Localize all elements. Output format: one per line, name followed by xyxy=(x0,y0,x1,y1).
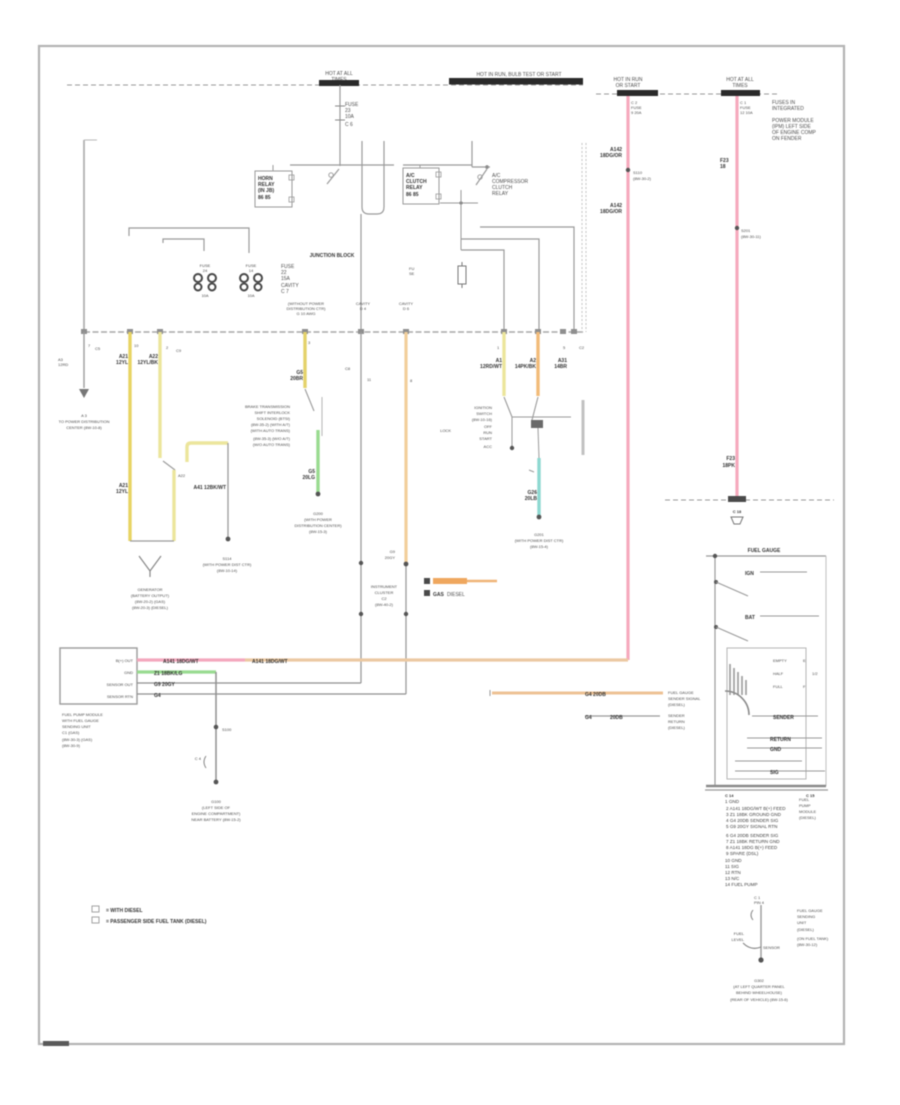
svg-text:SIG: SIG xyxy=(770,770,779,776)
svg-text:20BR: 20BR xyxy=(290,376,303,382)
junction U bottom joining yellows xyxy=(130,540,174,542)
bus HOT dashed line right xyxy=(596,93,778,95)
wire P2 pink vertical fuse feed xyxy=(735,96,738,499)
splice S110 on P1 xyxy=(626,168,652,181)
gauge coil bars xyxy=(730,664,746,695)
svg-text:UNIT: UNIT xyxy=(797,920,807,925)
wire P1 pin text xyxy=(631,100,642,115)
wire row R1 orange segment xyxy=(245,659,628,665)
svg-text:F23: F23 xyxy=(726,456,735,462)
svg-text:(8W-30-9): (8W-30-9) xyxy=(62,743,81,748)
fuel sender float arm xyxy=(732,931,780,950)
relay K1 feed rail xyxy=(290,164,394,166)
fuse cluster FC1 xyxy=(194,263,216,298)
header label H4 fuse xyxy=(721,77,760,96)
svg-text:= WITH DIESEL: = WITH DIESEL xyxy=(106,908,143,914)
wire W-A gray with arrow xyxy=(58,332,89,398)
cluster row D xyxy=(747,737,822,743)
wire P2 pin text xyxy=(740,100,753,115)
cluster row A xyxy=(745,571,807,577)
relay K2 feed rail xyxy=(403,141,472,167)
wire O1 destination text xyxy=(668,690,701,707)
svg-text:BEHIND WHEELHOUSE): BEHIND WHEELHOUSE) xyxy=(736,990,783,995)
wire W-H orange ignition xyxy=(515,332,538,396)
svg-text:SENSOR OUT: SENSOR OUT xyxy=(107,682,134,687)
in-box text TB4 xyxy=(399,301,413,311)
relay K2 output rail xyxy=(440,190,478,250)
fuel sender connector xyxy=(751,895,765,958)
wire P1 pink vertical ASD xyxy=(626,96,629,660)
svg-text:1 GND: 1 GND xyxy=(725,799,740,804)
svg-text:FUEL GAUGE: FUEL GAUGE xyxy=(668,690,694,695)
svg-text:HALF: HALF xyxy=(773,671,784,676)
svg-text:(BATTERY OUTPUT): (BATTERY OUTPUT) xyxy=(131,593,170,598)
relay K2 coil box xyxy=(403,165,441,204)
svg-text:14BR: 14BR xyxy=(554,364,567,370)
svg-text:(8W-30-3) (GAS): (8W-30-3) (GAS) xyxy=(62,737,93,742)
svg-text:A22: A22 xyxy=(178,473,186,478)
ground text under green xyxy=(294,511,342,534)
svg-text:A 3: A 3 xyxy=(81,413,88,418)
ignition switch contact SW1 xyxy=(163,461,175,470)
svg-text:G 10 AWG: G 10 AWG xyxy=(297,311,316,316)
switch contact SW-D xyxy=(305,389,322,436)
svg-text:18DG/OR: 18DG/OR xyxy=(600,209,622,215)
ground G302 text xyxy=(730,978,788,1002)
svg-text:MODULE: MODULE xyxy=(799,809,816,814)
svg-text:RETURN: RETURN xyxy=(668,719,685,724)
header label H2 HOT IN RUN xyxy=(449,72,583,85)
svg-text:D 6: D 6 xyxy=(403,306,410,311)
wire row R3 gray xyxy=(137,682,361,688)
svg-text:10A: 10A xyxy=(201,293,208,298)
module box PCM bottom-left xyxy=(60,648,137,704)
svg-text:G201: G201 xyxy=(534,532,545,537)
svg-text:G100: G100 xyxy=(211,799,222,804)
svg-text:20LB: 20LB xyxy=(525,496,538,502)
wire W-C pale yellow upper xyxy=(137,332,160,458)
svg-text:A141 18DG/WT: A141 18DG/WT xyxy=(163,659,199,665)
svg-text:10A: 10A xyxy=(247,293,254,298)
svg-text:2: 2 xyxy=(166,345,169,350)
svg-text:BRAKE TRANSMISSION: BRAKE TRANSMISSION xyxy=(245,404,290,409)
svg-text:12YL/BK: 12YL/BK xyxy=(137,360,158,366)
ignition switch contacts xyxy=(504,397,583,458)
svg-text:18: 18 xyxy=(720,164,726,170)
wire green ground drop xyxy=(195,672,232,784)
svg-text:C9: C9 xyxy=(176,348,182,353)
svg-text:(REAR OF VEHICLE) (8W-15-6): (REAR OF VEHICLE) (8W-15-6) xyxy=(730,997,788,1002)
svg-text:G4 20DB: G4 20DB xyxy=(585,692,606,698)
in-box bracket B1 xyxy=(129,228,249,253)
svg-text:9 SPARE (DSL): 9 SPARE (DSL) xyxy=(726,851,759,856)
svg-text:12RD: 12RD xyxy=(58,362,68,367)
svg-text:SENDER: SENDER xyxy=(773,715,794,721)
svg-text:7: 7 xyxy=(88,343,91,348)
svg-text:20GY: 20GY xyxy=(385,555,396,560)
junction block bottom pin boxes xyxy=(81,329,577,334)
connector text block middle xyxy=(371,584,398,607)
svg-text:5 G9 20GY SIGNAL RTN: 5 G9 20GY SIGNAL RTN xyxy=(726,824,778,829)
wire W-G pale yellow ignition feed xyxy=(480,332,504,396)
svg-text:GENERATOR: GENERATOR xyxy=(138,587,163,592)
svg-text:SENSOR RTN: SENSOR RTN xyxy=(107,694,133,699)
in-box text TB3 xyxy=(356,301,370,311)
svg-text:10 GND: 10 GND xyxy=(725,858,742,863)
svg-text:CLUSTER: CLUSTER xyxy=(375,590,394,595)
svg-text:G200: G200 xyxy=(313,511,324,516)
svg-text:1: 1 xyxy=(497,345,500,350)
svg-text:15A: 15A xyxy=(281,276,291,282)
cluster row E xyxy=(747,747,822,753)
svg-text:2 A141 18DG/WT B(+) FEED: 2 A141 18DG/WT B(+) FEED xyxy=(726,806,786,811)
svg-text:JUNCTION BLOCK: JUNCTION BLOCK xyxy=(310,253,355,259)
cluster row C xyxy=(752,715,818,721)
svg-text:(8W-35-3) (W/O A/T): (8W-35-3) (W/O A/T) xyxy=(253,436,290,441)
svg-text:(IN JB): (IN JB) xyxy=(258,188,274,194)
svg-text:OFF: OFF xyxy=(484,424,493,429)
cluster row B xyxy=(745,615,819,621)
svg-text:12 10A: 12 10A xyxy=(740,110,753,115)
svg-text:(DIESEL): (DIESEL) xyxy=(668,702,686,707)
svg-text:8 A141 18DG B(+) FEED: 8 A141 18DG B(+) FEED xyxy=(726,845,778,850)
svg-text:12RD/WT: 12RD/WT xyxy=(480,364,502,370)
svg-text:(8W-20-3) (DIESEL): (8W-20-3) (DIESEL) xyxy=(132,605,169,610)
svg-text:S114: S114 xyxy=(222,556,232,561)
svg-text:CENTER (8W-10-8): CENTER (8W-10-8) xyxy=(66,425,102,430)
svg-text:BAT: BAT xyxy=(745,615,755,621)
svg-text:Z1 18BK/LG: Z1 18BK/LG xyxy=(154,671,182,677)
ground G100 text xyxy=(191,799,241,822)
svg-text:(WITH AUTO TRANS): (WITH AUTO TRANS) xyxy=(251,428,291,433)
svg-text:FUEL GAUGE: FUEL GAUGE xyxy=(797,908,823,913)
svg-text:RUN: RUN xyxy=(483,430,492,435)
header label H1 HOT AT ALL TIMES xyxy=(319,71,359,86)
svg-text:G9 20GY: G9 20GY xyxy=(154,682,176,688)
svg-text:START: START xyxy=(479,436,492,441)
in-box text TB2 xyxy=(287,301,327,316)
wire P2 label lower xyxy=(722,456,735,469)
svg-text:20LG: 20LG xyxy=(302,475,315,481)
svg-text:86 85: 86 85 xyxy=(258,195,271,201)
svg-text:G9: G9 xyxy=(390,549,396,554)
svg-text:12YL: 12YL xyxy=(116,360,128,366)
table side note xyxy=(799,797,817,820)
svg-text:10A: 10A xyxy=(345,114,355,120)
svg-text:SENDER SIGNAL: SENDER SIGNAL xyxy=(668,696,701,701)
wire L2c nested xyxy=(461,250,504,332)
svg-text:C 14: C 14 xyxy=(725,793,734,798)
svg-text:(8W-30-2): (8W-30-2) xyxy=(633,176,652,181)
svg-text:C 6: C 6 xyxy=(345,122,353,128)
svg-text:G302: G302 xyxy=(754,978,765,983)
svg-text:DIESEL: DIESEL xyxy=(447,592,465,598)
instrument cluster box xyxy=(705,554,828,790)
in-box fuse symbol S2 xyxy=(458,262,466,288)
svg-text:B(+) OUT: B(+) OUT xyxy=(116,658,134,663)
svg-text:C8: C8 xyxy=(345,366,351,371)
svg-text:S110: S110 xyxy=(633,170,643,175)
svg-text:ON FENDER: ON FENDER xyxy=(772,136,802,142)
svg-text:SOLENOID (BTSI): SOLENOID (BTSI) xyxy=(257,416,291,421)
wire W-A destination text xyxy=(58,413,109,430)
wire W-B yellow vertical xyxy=(116,332,130,541)
svg-text:(WITH POWER: (WITH POWER xyxy=(304,517,332,522)
svg-text:8: 8 xyxy=(410,378,413,383)
svg-text:(LEFT SIDE OF: (LEFT SIDE OF xyxy=(202,805,231,810)
svg-text:SENSOR: SENSOR xyxy=(763,945,780,950)
connector C300 dashed line xyxy=(665,496,834,524)
wire P2 label upper xyxy=(720,158,729,170)
relay K1 contact bracket U xyxy=(362,141,384,214)
svg-text:14PK/BK: 14PK/BK xyxy=(515,364,537,370)
legend row 1 orange xyxy=(424,578,497,584)
svg-text:(8W-10-16): (8W-10-16) xyxy=(472,417,493,422)
bus HOT dashed line left xyxy=(67,84,583,86)
svg-text:FUEL: FUEL xyxy=(799,797,810,802)
cluster inner box xyxy=(727,648,806,779)
svg-text:24: 24 xyxy=(203,268,208,273)
svg-text:11: 11 xyxy=(367,377,372,382)
svg-text:EMPTY: EMPTY xyxy=(773,658,787,663)
component text right of P2 top xyxy=(772,100,817,142)
wire yellow elbow to accessory xyxy=(187,443,228,462)
svg-text:3: 3 xyxy=(308,340,311,345)
svg-text:SHIFT INTERLOCK: SHIFT INTERLOCK xyxy=(255,410,291,415)
svg-text:SENDER: SENDER xyxy=(668,713,685,718)
svg-text:TO POWER DISTRIBUTION: TO POWER DISTRIBUTION xyxy=(58,419,109,424)
svg-text:10: 10 xyxy=(134,343,139,348)
svg-text:C5: C5 xyxy=(95,346,101,351)
svg-text:(WITH POWER DIST CTR): (WITH POWER DIST CTR) xyxy=(515,538,564,543)
svg-text:NEAR BATTERY (8W-15-2): NEAR BATTERY (8W-15-2) xyxy=(191,817,241,822)
cluster switch A xyxy=(714,580,748,596)
svg-text:18DG/OR: 18DG/OR xyxy=(600,153,622,159)
ignition switch text block xyxy=(440,405,493,449)
gauge labels xyxy=(773,658,818,689)
svg-text:FULL: FULL xyxy=(773,684,784,689)
svg-text:86 85: 86 85 xyxy=(406,192,419,198)
cluster bottom pin marks xyxy=(725,793,815,798)
svg-text:12 RTN: 12 RTN xyxy=(725,870,741,875)
svg-text:E: E xyxy=(803,658,806,663)
svg-text:ACC: ACC xyxy=(484,444,493,449)
svg-text:18PK: 18PK xyxy=(722,463,735,469)
relay K1 coil box xyxy=(255,165,294,207)
svg-text:12YL: 12YL xyxy=(116,489,128,495)
wire P1 label lower xyxy=(600,203,622,215)
svg-text:FUEL PUMP MODULE: FUEL PUMP MODULE xyxy=(62,712,103,717)
svg-text:(DIESEL): (DIESEL) xyxy=(797,927,815,932)
svg-text:20DB: 20DB xyxy=(610,715,623,721)
svg-text:FUEL GAUGE: FUEL GAUGE xyxy=(748,548,781,554)
wire relay K1 output to box bottom xyxy=(360,214,362,332)
cluster switch B xyxy=(714,625,748,641)
svg-text:11 SIG: 11 SIG xyxy=(725,864,739,869)
svg-text:6 G4 20DB SENDER SIG: 6 G4 20DB SENDER SIG xyxy=(726,833,779,838)
splice S on P2 xyxy=(735,226,762,239)
svg-text:SE: SE xyxy=(409,271,415,276)
svg-text:C 7: C 7 xyxy=(281,289,289,295)
wire P1 label upper xyxy=(600,147,622,159)
svg-text:(ON FUEL TANK): (ON FUEL TANK) xyxy=(797,936,829,941)
svg-text:D 4: D 4 xyxy=(360,306,367,311)
wire O1 orange branch xyxy=(490,690,663,698)
fuse F1 drop wire from bus xyxy=(335,85,359,166)
svg-text:(8W-15-4): (8W-15-4) xyxy=(530,544,549,549)
svg-text:7 Z1 18BK RETURN GND: 7 Z1 18BK RETURN GND xyxy=(726,839,780,844)
svg-text:(W/O AUTO TRANS): (W/O AUTO TRANS) xyxy=(253,442,291,447)
svg-text:14 FUEL PUMP: 14 FUEL PUMP xyxy=(725,882,758,887)
svg-text:14: 14 xyxy=(249,268,254,273)
svg-text:A41 12BK/WT: A41 12BK/WT xyxy=(193,485,226,491)
svg-text:C2: C2 xyxy=(381,596,387,601)
svg-text:3 Z1 18BK GROUND GND: 3 Z1 18BK GROUND GND xyxy=(726,812,782,817)
gauge needle arc xyxy=(725,691,749,715)
wire W-E gray vertical to cluster xyxy=(359,332,363,683)
svg-text:IGNITION: IGNITION xyxy=(474,405,492,410)
svg-text:(WITH POWER DIST CTR): (WITH POWER DIST CTR) xyxy=(203,562,252,567)
svg-text:C 4: C 4 xyxy=(195,756,202,761)
wire row R4 gray xyxy=(137,693,406,699)
wire W-D mustard yellow xyxy=(290,332,305,388)
svg-text:(8W-35-2) (WITH A/T): (8W-35-2) (WITH A/T) xyxy=(251,422,291,427)
svg-text:IGN: IGN xyxy=(745,571,754,577)
svg-text:ENGINE COMPARTMENT): ENGINE COMPARTMENT) xyxy=(192,811,241,816)
wire row R1 pink segment xyxy=(137,659,245,665)
bottom pins of junction block xyxy=(88,340,585,383)
in-box text TB1 xyxy=(281,264,299,295)
svg-text:RETURN: RETURN xyxy=(770,737,791,743)
connector pin table xyxy=(725,799,786,856)
svg-text:INTEGRATED: INTEGRATED xyxy=(772,106,804,112)
header label H3 ASD relay xyxy=(613,77,658,96)
svg-text:9 20A: 9 20A xyxy=(631,110,642,115)
svg-text:LEVEL: LEVEL xyxy=(732,937,745,942)
svg-text:(DIESEL): (DIESEL) xyxy=(668,725,686,730)
in-box bracket B2 xyxy=(163,239,204,251)
svg-text:5: 5 xyxy=(563,345,566,350)
svg-text:A141 18DG/WT: A141 18DG/WT xyxy=(252,659,288,665)
page number xyxy=(43,1041,69,1046)
fuse cluster FC2 xyxy=(240,263,262,298)
relay K2 switch xyxy=(472,165,490,185)
svg-text:GND: GND xyxy=(124,670,133,675)
svg-text:(DIESEL): (DIESEL) xyxy=(799,815,817,820)
wire W-D green segment xyxy=(302,430,320,496)
svg-text:GND: GND xyxy=(770,747,782,753)
wire L2a nested xyxy=(480,227,574,332)
svg-text:(8W-15-3): (8W-15-3) xyxy=(309,529,328,534)
wire O2 gray branch xyxy=(585,715,660,721)
svg-text:LOCK: LOCK xyxy=(440,428,451,433)
wire row R2 green xyxy=(137,671,216,677)
wire W-F orange vertical xyxy=(385,332,409,694)
svg-text:(8W-20-2) (GAS): (8W-20-2) (GAS) xyxy=(135,599,166,604)
svg-text:OR START: OR START xyxy=(616,83,641,89)
wire W-CY cyan vertical xyxy=(525,458,542,519)
svg-text:G4: G4 xyxy=(585,715,592,721)
svg-text:C 18: C 18 xyxy=(733,509,742,514)
cluster row G xyxy=(735,770,825,776)
junction block box outline xyxy=(84,140,586,332)
svg-text:= PASSENGER SIDE FUEL TANK (DI: = PASSENGER SIDE FUEL TANK (DIESEL) xyxy=(106,919,207,925)
in-box small symbol S1 xyxy=(409,266,415,276)
fuel sender ground dot xyxy=(758,957,763,962)
svg-text:PUMP: PUMP xyxy=(799,803,811,808)
svg-text:(8W-30-11): (8W-30-11) xyxy=(741,234,762,239)
svg-text:SWITCH: SWITCH xyxy=(476,411,492,416)
svg-text:G4: G4 xyxy=(154,693,161,699)
svg-text:S201: S201 xyxy=(741,228,751,233)
legend bottom rows xyxy=(92,906,207,925)
svg-text:WITH FUEL GAUGE: WITH FUEL GAUGE xyxy=(62,718,99,723)
wire L2b nested xyxy=(461,239,539,332)
svg-text:DISTRIBUTION CENTER): DISTRIBUTION CENTER) xyxy=(294,523,342,528)
svg-text:(8W-40-2): (8W-40-2) xyxy=(375,602,394,607)
wire O2 destination text xyxy=(668,713,686,730)
module label text xyxy=(62,712,103,748)
svg-text:4 G4 20DB SENDER SIG: 4 G4 20DB SENDER SIG xyxy=(726,818,779,823)
relay K2 label text xyxy=(492,173,529,197)
generator label text xyxy=(131,587,170,610)
svg-text:C2: C2 xyxy=(579,345,585,350)
svg-text:C1 (GAS): C1 (GAS) xyxy=(62,730,80,735)
svg-text:(AT LEFT QUARTER PANEL: (AT LEFT QUARTER PANEL xyxy=(733,984,785,989)
svg-text:TIMES: TIMES xyxy=(732,83,748,89)
wire W-C pale yellow lower xyxy=(174,470,186,541)
A/T shift lock text block xyxy=(245,404,291,447)
svg-text:RELAY: RELAY xyxy=(492,191,509,197)
svg-text:1/2: 1/2 xyxy=(812,671,818,676)
svg-text:(8W-10-14): (8W-10-14) xyxy=(217,568,238,573)
svg-text:S100: S100 xyxy=(222,727,232,732)
svg-text:FUEL: FUEL xyxy=(734,931,745,936)
relay K1 switch xyxy=(327,169,339,184)
svg-text:SENDING UNIT: SENDING UNIT xyxy=(62,724,91,729)
svg-text:GAS: GAS xyxy=(433,592,445,598)
cluster row F xyxy=(735,760,802,762)
wire W-ACC destination text xyxy=(203,556,252,573)
instrument cluster title xyxy=(748,548,781,554)
svg-text:(8W-30-12): (8W-30-12) xyxy=(797,942,818,947)
svg-text:RELAY: RELAY xyxy=(406,185,423,191)
legend row 2 xyxy=(424,590,465,598)
svg-text:INSTRUMENT: INSTRUMENT xyxy=(371,584,398,589)
fuel sender text block xyxy=(797,908,829,947)
svg-text:SENDING: SENDING xyxy=(797,914,815,919)
connector pin table short rows xyxy=(725,858,758,887)
svg-text:HOT IN RUN, BULB TEST OR START: HOT IN RUN, BULB TEST OR START xyxy=(476,72,561,78)
wire W-I stub labels xyxy=(554,358,567,370)
wire W-ACC gray vertical xyxy=(193,443,230,541)
twisted pair V symbol xyxy=(139,556,161,577)
svg-text:13 N/C: 13 N/C xyxy=(725,876,740,881)
ground text under cyan xyxy=(515,532,564,549)
svg-text:PIN 4: PIN 4 xyxy=(754,900,765,905)
junction block center label xyxy=(310,253,355,259)
